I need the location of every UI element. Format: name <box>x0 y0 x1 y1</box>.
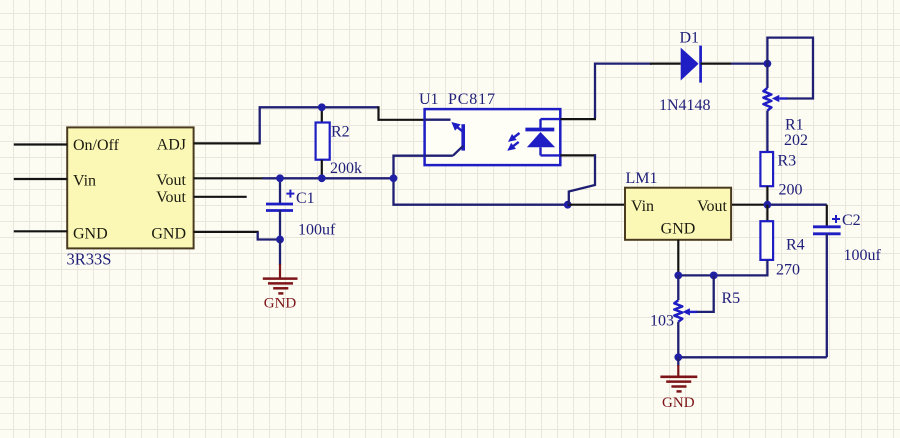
node R2 bottom <box>318 174 326 182</box>
wire step into optocoupler collector side <box>379 106 425 120</box>
optocoupler U1 PC817 box <box>425 109 561 165</box>
svg-text:R2: R2 <box>331 124 350 141</box>
node C1 top <box>276 174 284 182</box>
pin GND right <box>194 231 259 233</box>
svg-text:1N4148: 1N4148 <box>659 97 711 114</box>
transistor inside U1 <box>425 119 451 121</box>
node Vin rail LED cathode <box>564 201 572 209</box>
wire LM1 Vout to C2 <box>731 204 766 206</box>
wire R1 wiper loop <box>767 38 813 99</box>
svg-text:Vin: Vin <box>73 173 96 190</box>
svg-text:Vout: Vout <box>697 198 727 215</box>
svg-text:R4: R4 <box>786 237 805 254</box>
svg-text:R3: R3 <box>778 153 797 170</box>
resistor R4 <box>766 205 768 222</box>
svg-text:GND: GND <box>661 221 696 238</box>
svg-text:200k: 200k <box>330 160 362 177</box>
node D1 cathode R1 <box>764 60 772 68</box>
pin LM1 GND <box>677 240 679 276</box>
svg-text:103: 103 <box>650 313 674 330</box>
ground GND right <box>677 357 679 366</box>
pin Vout 2 stub <box>194 196 247 198</box>
pin Vin <box>14 178 67 180</box>
LED inside U1 <box>525 128 554 132</box>
wire LED cathode step down <box>560 154 596 156</box>
svg-text:GND: GND <box>73 226 108 243</box>
wire emitter down to Vin rail <box>394 156 568 205</box>
svg-text:202: 202 <box>784 132 808 149</box>
svg-text:100uf: 100uf <box>298 222 336 239</box>
node Vout R3 R4 <box>764 201 772 209</box>
light arrows of U1 <box>511 133 519 139</box>
svg-text:PC817: PC817 <box>448 91 496 108</box>
diode D1 1N4148 <box>650 62 681 64</box>
svg-text:100uf: 100uf <box>844 247 882 264</box>
svg-text:U1: U1 <box>419 91 439 108</box>
svg-text:270: 270 <box>776 262 800 279</box>
wire LED anode to D1 <box>560 118 596 120</box>
wire R5 wiper up <box>696 275 714 312</box>
svg-text:3R33S: 3R33S <box>67 250 112 269</box>
svg-text:GND: GND <box>662 395 695 411</box>
pin LM1 Vin <box>568 204 625 206</box>
node R2 top <box>318 103 326 111</box>
node emitter / Vout rail <box>390 174 398 182</box>
resistor R5 pot <box>677 275 679 300</box>
svg-text:C2: C2 <box>842 212 861 229</box>
svg-text:GND: GND <box>151 226 186 243</box>
wire Vout rail <box>263 177 393 179</box>
regulator module 3R33S box <box>67 127 193 248</box>
resistor R2 <box>321 107 323 122</box>
regulator LM1 box <box>625 188 731 240</box>
svg-text:Vin: Vin <box>631 198 654 215</box>
pin Vout 1 <box>194 177 264 179</box>
node C1 bottom <box>276 236 284 244</box>
node bottom rail <box>674 353 682 361</box>
svg-text:R5: R5 <box>722 290 741 307</box>
capacitor C1 <box>279 178 281 204</box>
resistor R1 pot <box>766 64 768 88</box>
wire ADJ riser to top rail <box>260 107 379 143</box>
resistor R3 <box>760 152 773 186</box>
pin On/Off <box>14 143 67 145</box>
node R5 wiper tie <box>710 272 718 280</box>
capacitor C2 <box>826 205 828 227</box>
svg-text:On/Off: On/Off <box>73 137 120 154</box>
node LM1 GND R5 <box>674 272 682 280</box>
ground GND left <box>279 240 281 266</box>
pin ADJ <box>194 142 261 144</box>
svg-text:ADJ: ADJ <box>157 137 186 154</box>
svg-text:D1: D1 <box>680 30 700 47</box>
svg-text:Vout: Vout <box>156 189 186 206</box>
pin GND left <box>14 230 67 232</box>
svg-text:LM1: LM1 <box>626 170 658 187</box>
svg-text:C1: C1 <box>296 190 315 207</box>
svg-text:GND: GND <box>264 296 297 312</box>
svg-text:Vout: Vout <box>156 172 186 189</box>
wire GND step to C1 minus <box>258 232 280 240</box>
wire bottom rail to C2 <box>678 356 827 358</box>
svg-text:200: 200 <box>779 182 803 199</box>
